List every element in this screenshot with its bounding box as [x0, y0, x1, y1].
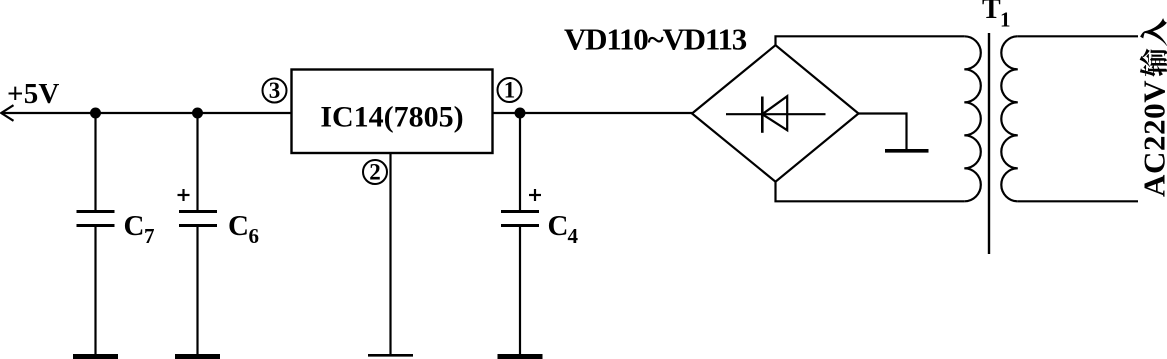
svg-text:C: C [124, 210, 145, 242]
node junction C6 tap [192, 108, 203, 119]
pin 3 [263, 78, 287, 103]
label C7 [124, 210, 155, 248]
label C6 [228, 210, 259, 248]
wire bridge to ground [859, 114, 907, 150]
ground bar [885, 149, 929, 153]
svg-text:IC14(7805): IC14(7805) [320, 101, 463, 134]
node junction C7 tap [90, 108, 101, 119]
capacitor C6 polarity plus [178, 189, 190, 201]
label T1 [982, 0, 1011, 32]
node junction C4 tap [515, 108, 526, 119]
svg-text:3: 3 [269, 78, 281, 103]
label C4 [548, 210, 579, 248]
transformer T1 primary winding [1001, 36, 1018, 201]
svg-text:C: C [548, 210, 569, 242]
diode bridge VD110-VD113 diamond [692, 45, 859, 182]
svg-text:7: 7 [144, 224, 155, 248]
transformer T1 secondary winding [964, 36, 981, 201]
svg-text:1: 1 [1000, 8, 1011, 32]
capacitor C7 [73, 113, 118, 357]
capacitor C6 [175, 113, 220, 357]
svg-text:4: 4 [568, 224, 579, 248]
pin 1 [498, 78, 522, 103]
svg-text:6: 6 [249, 224, 260, 248]
svg-text:+5V: +5V [7, 78, 60, 110]
diode symbol triangle [762, 96, 787, 130]
svg-text:C: C [228, 210, 249, 242]
label AC220V input (rotated) [1137, 18, 1167, 197]
arrow +5V output [1, 105, 13, 121]
pin 2 [363, 160, 387, 185]
wire pin 2 ground lead [389, 153, 391, 355]
wire transformer primary top [1018, 35, 1138, 37]
ground pin2 bar [368, 354, 413, 357]
svg-text:AC220V: AC220V [1137, 80, 1167, 197]
wire diode through line [726, 113, 826, 115]
wire transformer primary bottom [1018, 200, 1138, 202]
op-amp U-IC14 regulator box [292, 70, 493, 154]
wire bridge top to transformer [776, 36, 965, 45]
svg-text:VD110~VD113: VD110~VD113 [564, 22, 747, 57]
wire +5V output rail [1, 112, 292, 114]
wire bridge bottom to transformer [776, 182, 965, 202]
diode symbol cathode bar [761, 97, 764, 133]
wire IC pin1 to bridge [493, 112, 693, 114]
capacitor C4 polarity plus [529, 189, 541, 201]
svg-text:2: 2 [369, 160, 381, 185]
capacitor C4 [498, 113, 543, 357]
svg-text:1: 1 [504, 78, 516, 103]
transformer T1 core [988, 33, 990, 254]
svg-text:T: T [982, 0, 1001, 25]
